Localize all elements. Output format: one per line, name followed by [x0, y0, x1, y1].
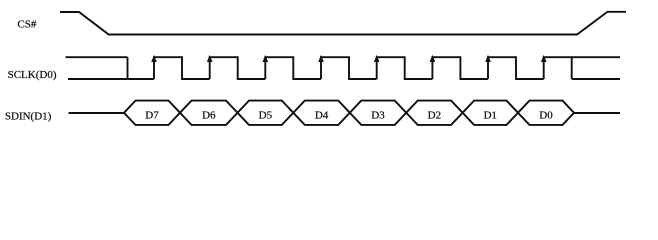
wire SCLK pulse 3 (bit D5)	[265, 57, 321, 79]
svg-text:D0: D0	[539, 110, 553, 122]
wire SDIN trailing line	[574, 112, 620, 114]
wire SCLK pulse 4 (bit D4)	[321, 57, 377, 79]
svg-text:D6: D6	[202, 110, 216, 122]
wire SCLK initial falling edge	[127, 57, 129, 79]
arrowhead SCLK rising edge 8	[541, 55, 547, 62]
arrowhead SCLK rising edge 1	[151, 55, 157, 62]
wire SCLK trailing high rail (right)	[572, 56, 620, 58]
svg-text:D2: D2	[428, 110, 441, 122]
wire SCLK pulse 6 (bit D2)	[432, 57, 488, 79]
svg-text:D1: D1	[484, 110, 497, 122]
arrowhead SCLK rising edge 3	[263, 55, 269, 62]
wire SCLK pulse 2 (bit D6)	[210, 57, 266, 79]
wire SCLK pulse 1 (bit D7)	[154, 57, 210, 79]
svg-text:SDIN(D1): SDIN(D1)	[5, 110, 52, 122]
arrowhead SCLK rising edge 2	[207, 55, 213, 62]
svg-text:D4: D4	[315, 110, 329, 122]
wire SCLK idle low rail (left)	[68, 78, 154, 80]
svg-text:D7: D7	[145, 110, 159, 122]
svg-text:SCLK(D0): SCLK(D0)	[8, 69, 57, 81]
arrowhead SCLK rising edge 5	[374, 55, 380, 62]
wire SDIN bus lower zigzag	[124, 101, 574, 125]
wire SCLK idle high rail (left)	[66, 56, 128, 58]
arrowhead SCLK rising edge 4	[318, 55, 324, 62]
svg-text:D3: D3	[371, 110, 385, 122]
wire SCLK pulse 5 (bit D3)	[377, 57, 433, 79]
wire SCLK trailing low rail (right)	[572, 78, 620, 80]
wire SDIN bus upper zigzag	[124, 101, 574, 125]
arrowhead SCLK rising edge 6	[430, 55, 436, 62]
wire SCLK pulse 7 (bit D1)	[488, 57, 544, 79]
svg-text:CS#: CS#	[17, 18, 36, 30]
wire SDIN lead-in line	[69, 112, 125, 114]
wire SCLK pulse 8 (bit D0)	[544, 57, 572, 79]
wire CS# waveform	[60, 12, 626, 35]
arrowhead SCLK rising edge 7	[485, 55, 491, 62]
svg-text:D5: D5	[259, 110, 273, 122]
